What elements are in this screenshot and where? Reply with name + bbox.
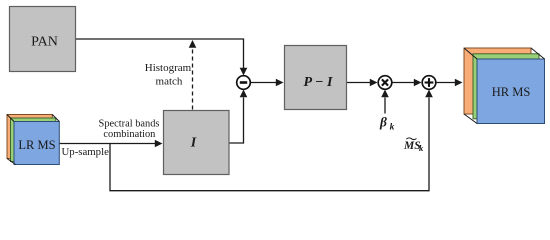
svg-text:P − I: P − I [304,75,334,90]
svg-text:MS: MS [403,140,421,152]
svg-text:match: match [156,76,183,88]
svg-text:combination: combination [103,129,156,140]
svg-text:β: β [379,115,387,130]
svg-text:Histogram: Histogram [145,62,192,74]
svg-text:k: k [390,123,395,133]
svg-text:I: I [190,136,197,151]
svg-text:Up-sample: Up-sample [62,146,110,158]
svg-text:Spectral bands: Spectral bands [99,118,160,129]
svg-text:PAN: PAN [31,34,58,49]
svg-text:LR MS: LR MS [18,138,55,152]
svg-text:HR MS: HR MS [492,85,531,99]
